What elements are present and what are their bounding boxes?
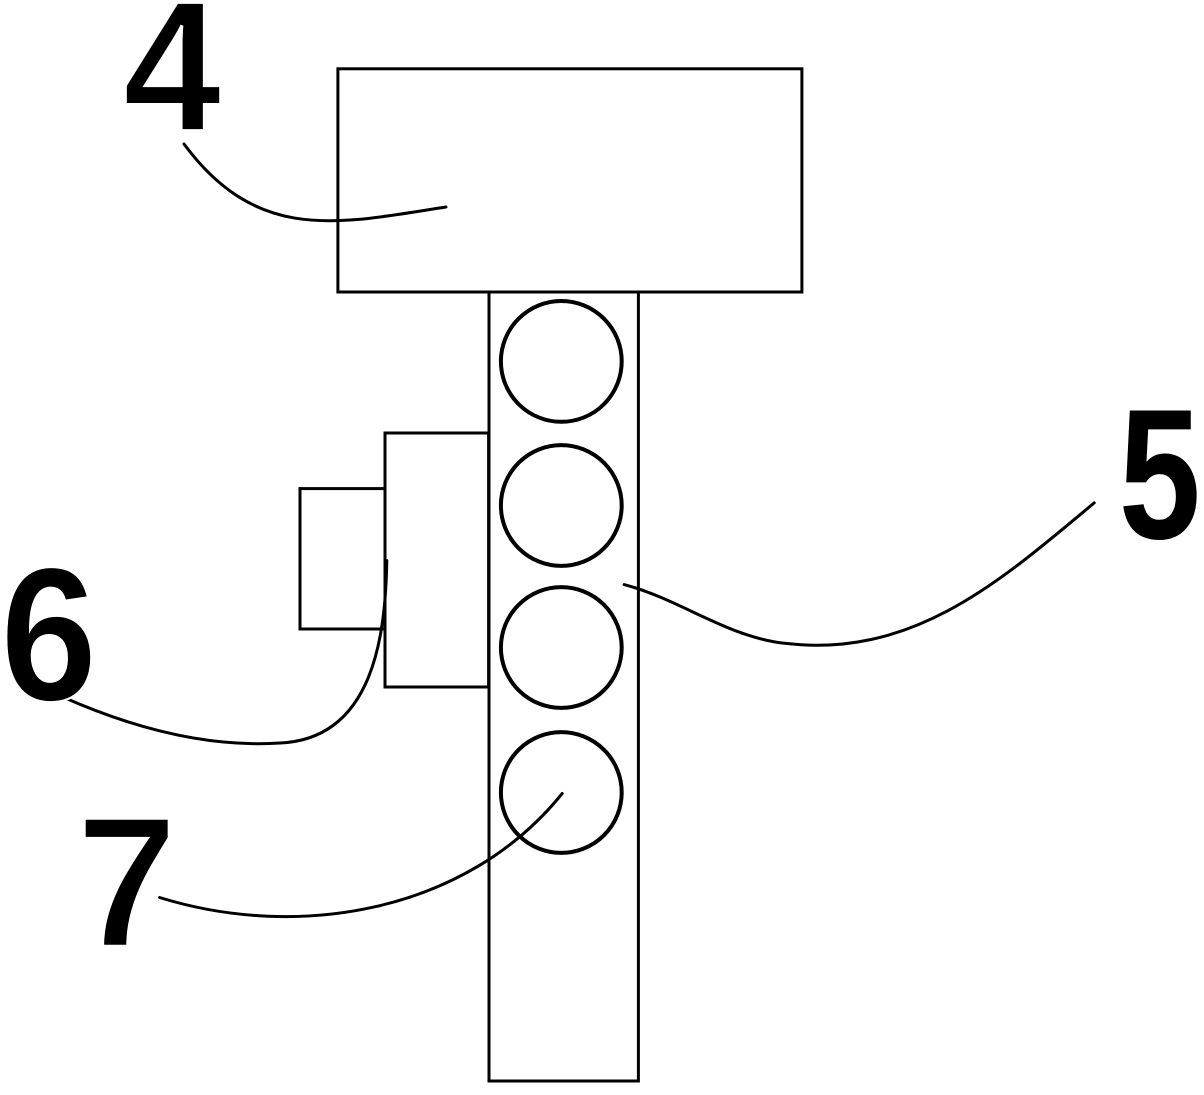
top block 4 (upper rectangle) bbox=[338, 69, 802, 292]
roller circle 1 bbox=[501, 301, 622, 422]
svg-text:7: 7 bbox=[76, 778, 178, 988]
vertical column 5 (roller housing) bbox=[489, 292, 638, 1081]
leader line from label 5 bbox=[624, 503, 1094, 645]
roller circle 4 (part 7) bbox=[501, 732, 622, 853]
side block 6 (medium rectangle on left of column) bbox=[385, 433, 489, 687]
leader line from label 4 bbox=[184, 144, 446, 221]
small side block (left of block 6) bbox=[300, 489, 385, 629]
roller circle 2 bbox=[501, 445, 622, 566]
svg-text:6: 6 bbox=[0, 527, 97, 741]
roller circle 3 bbox=[501, 587, 622, 708]
svg-text:5: 5 bbox=[1119, 370, 1201, 578]
leader line from label 7 bbox=[160, 794, 563, 917]
leader line from label 6 bbox=[63, 561, 387, 744]
svg-text:4: 4 bbox=[123, 0, 222, 171]
